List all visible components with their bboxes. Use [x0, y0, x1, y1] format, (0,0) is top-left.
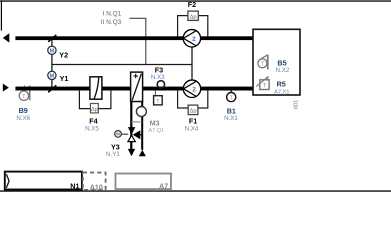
pump F2 diff pressure loop: [178, 16, 208, 37]
svg-text:N.X3: N.X3: [151, 74, 165, 81]
svg-text:N.X5: N.X5: [85, 125, 99, 132]
wire: bypass middle line: [52, 64, 192, 66]
wire: vertical between pumps: [191, 47, 193, 81]
three-way valve Y3: right triangle: [133, 130, 141, 139]
svg-text:N.X1: N.X1: [224, 115, 238, 122]
svg-text:Δp: Δp: [190, 15, 197, 21]
svg-text:I N.Q1: I N.Q1: [103, 11, 122, 18]
wire: valve branch vertical: [51, 38, 53, 89]
heat exchanger diagonal: [132, 74, 141, 101]
svg-text:N.X6: N.X6: [16, 115, 30, 122]
valve Y2 slash on top pipe: [48, 35, 56, 42]
pump F1 diff pressure loop: [178, 91, 208, 108]
svg-text:N.X4: N.X4: [185, 126, 199, 133]
valve Y1 slash on bottom pipe: [48, 85, 56, 92]
sensor B1 circle: [227, 93, 236, 102]
sensor F3 capillary loop on pipe: [157, 81, 164, 88]
pressure switch box F2: [188, 11, 198, 20]
svg-text:A7: A7: [159, 182, 168, 191]
sensor R5 arrow: [256, 77, 267, 86]
svg-text:Δp: Δp: [91, 107, 98, 113]
svg-text:N.Y1: N.Y1: [106, 151, 120, 158]
heat exchanger body: [131, 72, 143, 101]
arrow: top pipe flow left: [3, 33, 10, 42]
svg-text:F1: F1: [189, 117, 197, 126]
svg-text:B9: B9: [19, 106, 28, 115]
heat exchanger plus sign: [133, 75, 138, 77]
sensor B1 stem: [230, 91, 232, 93]
svg-text:R5: R5: [277, 79, 286, 88]
pressure switch box F1: [188, 105, 198, 115]
pipe: bottom supply pipe: [15, 87, 253, 91]
svg-text:N1: N1: [70, 182, 79, 191]
arrow: primary return up: [139, 150, 146, 156]
top border line: [0, 0, 391, 1]
sensor B5 probe bar: [267, 55, 269, 70]
filter diagonal: [94, 78, 99, 99]
arrow: bottom pipe flow right: [3, 84, 9, 92]
pump F1 circle: [183, 80, 200, 97]
actuator M circle Y2: [48, 46, 56, 54]
chevron flag in N1: [6, 174, 9, 188]
thermostat box F3: [154, 96, 163, 105]
consumer box: [253, 29, 300, 95]
wire: primary supply drop (left): [130, 102, 132, 150]
pipe: top return pipe: [15, 36, 253, 40]
svg-text:M: M: [116, 132, 120, 137]
svg-text:F2: F2: [188, 0, 196, 9]
left border line: [1, 0, 2, 30]
svg-text:B1: B1: [227, 106, 236, 115]
arrow: primary supply down: [128, 149, 135, 156]
wire: grey bypass link: [131, 121, 142, 123]
wire: pump speed bracket I/II: [130, 18, 146, 64]
bottom border line: [0, 190, 391, 191]
sensor B9 stem: [23, 86, 25, 92]
svg-text:A7.Q1: A7.Q1: [148, 128, 164, 134]
filter body: [90, 77, 102, 99]
pump M3 circle: [136, 107, 146, 117]
svg-text:F4: F4: [89, 117, 97, 126]
controller box N1: [5, 172, 82, 190]
svg-text:M: M: [50, 74, 55, 80]
svg-text:N.X2: N.X2: [276, 67, 290, 74]
svg-text:Y2: Y2: [59, 50, 68, 59]
actuator M circle Y3: [121, 133, 128, 135]
svg-text:Y1: Y1: [60, 74, 69, 83]
svg-text:2: 2: [192, 36, 196, 43]
wire: primary return riser (right): [141, 102, 143, 150]
sensor B9 circle: [19, 91, 28, 100]
svg-text:II N.Q3: II N.Q3: [101, 19, 122, 26]
actuator M circle Y1: [48, 71, 56, 79]
svg-text:Δp: Δp: [190, 109, 197, 115]
svg-text:M3: M3: [150, 119, 160, 128]
pump F2 circle: [183, 30, 200, 47]
wire: valve to riser link: [140, 134, 142, 136]
svg-text:2: 2: [192, 87, 196, 94]
module box A10 dashed: [83, 173, 106, 190]
module box A7: [116, 174, 172, 190]
sensor B5 circle: [258, 59, 267, 68]
sensor B5 diagonal: [261, 55, 268, 59]
three-way valve Y3: bottom open triangle: [128, 135, 135, 141]
pressure switch box F4: [90, 104, 98, 113]
sensor B9 probe bar: [29, 85, 31, 100]
filter FI with diff pressure F4: loop wire: [79, 91, 111, 109]
svg-text:A10: A10: [90, 182, 103, 191]
sensor F3 stem: [154, 91, 156, 96]
svg-text:M: M: [50, 49, 55, 55]
three-way valve Y3: top triangle: [128, 127, 135, 134]
svg-text:801: 801: [293, 100, 299, 109]
sensor R5 square: [260, 80, 269, 90]
svg-text:A7.X1: A7.X1: [274, 90, 289, 96]
